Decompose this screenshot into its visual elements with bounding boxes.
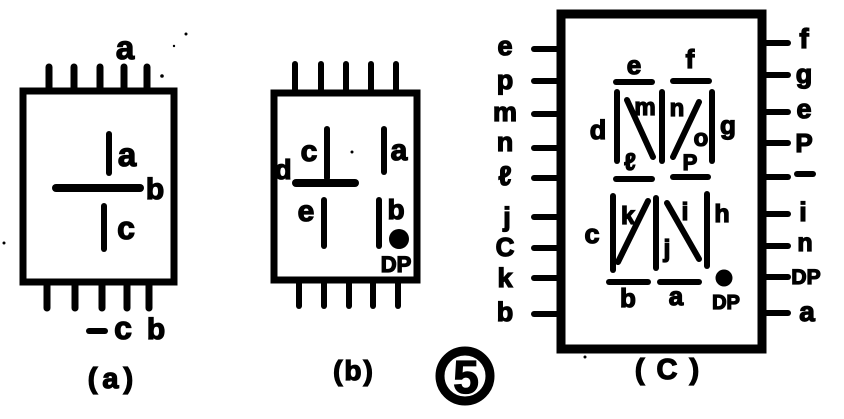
segment d horizontal (b) — [296, 179, 355, 187]
svg-text:g: g — [720, 110, 736, 140]
segment f top-right horizontal (c) — [673, 78, 709, 84]
svg-text:ℓ: ℓ — [624, 149, 636, 176]
package body (b) — [274, 93, 417, 280]
pin n right (c) — [762, 243, 788, 249]
pin DP right (c) — [762, 274, 788, 280]
svg-text:n: n — [670, 95, 685, 122]
svg-text:a: a — [669, 281, 684, 311]
svg-text:d: d — [274, 154, 291, 185]
segment a (a) vertical — [106, 134, 112, 173]
svg-text:o: o — [694, 125, 709, 152]
svg-text:n: n — [497, 127, 514, 157]
pin e left (c) — [534, 46, 561, 52]
svg-text:b: b — [147, 313, 165, 346]
segment k diagonal (c) — [618, 201, 648, 262]
svg-text:c: c — [114, 310, 132, 346]
svg-text:d: d — [590, 115, 607, 145]
svg-text:i: i — [799, 197, 807, 227]
svg-text:e: e — [627, 50, 641, 80]
pin k left (c) — [534, 275, 561, 281]
svg-text:e: e — [298, 195, 315, 228]
segment c vertical (b) — [324, 129, 330, 178]
segment upper-center vertical (c) — [659, 92, 665, 161]
pin 5 bottom (a) — [146, 282, 153, 308]
svg-text:a: a — [116, 29, 135, 66]
segment mid-left horizontal (c) — [616, 176, 652, 182]
svg-text:c: c — [301, 135, 318, 168]
pin label minus right (c) — [797, 171, 813, 177]
pin 5 bottom (b) — [395, 280, 401, 306]
svg-text:j: j — [502, 202, 511, 232]
svg-text:m: m — [493, 97, 517, 127]
svg-text:h: h — [714, 200, 729, 228]
svg-text:i: i — [682, 198, 689, 226]
segment d upper-left vertical (c) — [614, 92, 620, 161]
svg-text:p: p — [497, 65, 514, 95]
svg-text:b: b — [620, 283, 636, 313]
pin 4 bottom (a) — [124, 282, 131, 308]
pin j left (c) — [534, 214, 561, 220]
pin e right (c) — [762, 109, 788, 115]
segment e vertical (b) — [321, 200, 327, 246]
pin n left (c) — [534, 145, 561, 151]
svg-text:a: a — [118, 136, 137, 173]
package body (a) — [23, 91, 174, 282]
scan noise specks — [185, 33, 188, 36]
svg-text:C: C — [496, 232, 515, 262]
pin g right (c) — [762, 72, 788, 78]
svg-text:f: f — [799, 23, 809, 54]
pin 4 top (a) — [121, 67, 128, 91]
svg-text:(a): (a) — [88, 363, 138, 395]
svg-text:a: a — [391, 134, 408, 167]
pin 1 bottom (a) — [44, 282, 51, 308]
segment g upper-right vertical (c) — [709, 92, 715, 161]
segment b bottom-left horizontal (c) — [609, 279, 648, 285]
pin f right (c) — [762, 40, 788, 46]
pin 5 top (a) — [144, 67, 151, 91]
pin 2 top (a) — [71, 67, 78, 91]
pin b left (c) — [534, 311, 561, 317]
pin 3 top (a) — [97, 67, 104, 91]
segment lower-center vertical (c) — [653, 198, 659, 268]
svg-text:g: g — [796, 59, 813, 89]
segment e top-left horizontal (c) — [616, 79, 652, 85]
pin 2 bottom (b) — [321, 280, 327, 306]
segment c lower-left vertical (c) — [610, 196, 616, 270]
svg-text:b: b — [146, 173, 164, 206]
pin 3 top (b) — [343, 64, 349, 93]
pin c left (c) — [534, 245, 561, 251]
segment h lower-right vertical (c) — [704, 194, 710, 266]
segment a vertical (b) — [381, 129, 387, 172]
svg-text:DP: DP — [712, 292, 740, 314]
svg-text:ℓ: ℓ — [498, 161, 511, 191]
pin label minus bottom (a) — [89, 328, 105, 334]
pin p left (c) — [534, 78, 561, 84]
svg-text:b: b — [387, 194, 404, 225]
svg-text:j: j — [663, 235, 671, 263]
svg-text:a: a — [799, 296, 815, 327]
svg-text:DP: DP — [791, 266, 820, 289]
pin 3 bottom (b) — [346, 280, 352, 306]
pin 4 bottom (b) — [370, 280, 376, 306]
svg-text:(b): (b) — [333, 355, 375, 386]
svg-text:5: 5 — [453, 351, 479, 403]
pin a right (c) — [762, 310, 788, 316]
svg-text:P: P — [683, 150, 698, 175]
segment b vertical (b) — [376, 200, 382, 246]
svg-text:c: c — [117, 210, 135, 246]
pin m left (c) — [534, 111, 561, 117]
figure number circle — [440, 351, 490, 401]
pin i right (c) — [762, 211, 788, 217]
decimal point dot (b) — [389, 229, 409, 249]
decimal point dot (c) — [716, 270, 733, 287]
pin 1 bottom (b) — [296, 280, 302, 306]
pin 3 bottom (a) — [99, 282, 106, 308]
svg-text:b: b — [497, 297, 514, 327]
pin 2 bottom (a) — [72, 282, 79, 308]
svg-text:P: P — [795, 128, 812, 158]
segment o diagonal (c) — [673, 102, 699, 157]
svg-text:k: k — [497, 263, 513, 293]
pin 4 top (b) — [368, 64, 374, 93]
pin P right (c) — [762, 140, 788, 146]
pin l left (c) — [534, 175, 561, 181]
segment c (a) vertical — [101, 206, 107, 249]
pin minus right (c) — [762, 174, 788, 180]
svg-text:(C): (C) — [635, 354, 711, 386]
svg-text:e: e — [796, 94, 811, 124]
svg-text:f: f — [686, 44, 695, 74]
segment a bottom-right horizontal (c) — [660, 279, 699, 285]
pin 1 top (a) — [46, 67, 53, 91]
segment b (a) horizontal — [56, 184, 140, 192]
package body (c) — [561, 14, 762, 349]
pin 5 top (b) — [393, 64, 399, 93]
segment i diagonal (c) — [667, 203, 699, 259]
svg-text:n: n — [797, 229, 812, 257]
svg-text:m: m — [634, 94, 655, 121]
segment m diagonal (c) — [627, 100, 653, 157]
svg-text:DP: DP — [381, 252, 412, 277]
svg-text:c: c — [584, 219, 599, 249]
svg-text:e: e — [497, 31, 512, 61]
pin 2 top (b) — [318, 64, 324, 93]
pin 1 top (b) — [292, 64, 298, 93]
segment mid-right horizontal (c) — [673, 174, 708, 180]
